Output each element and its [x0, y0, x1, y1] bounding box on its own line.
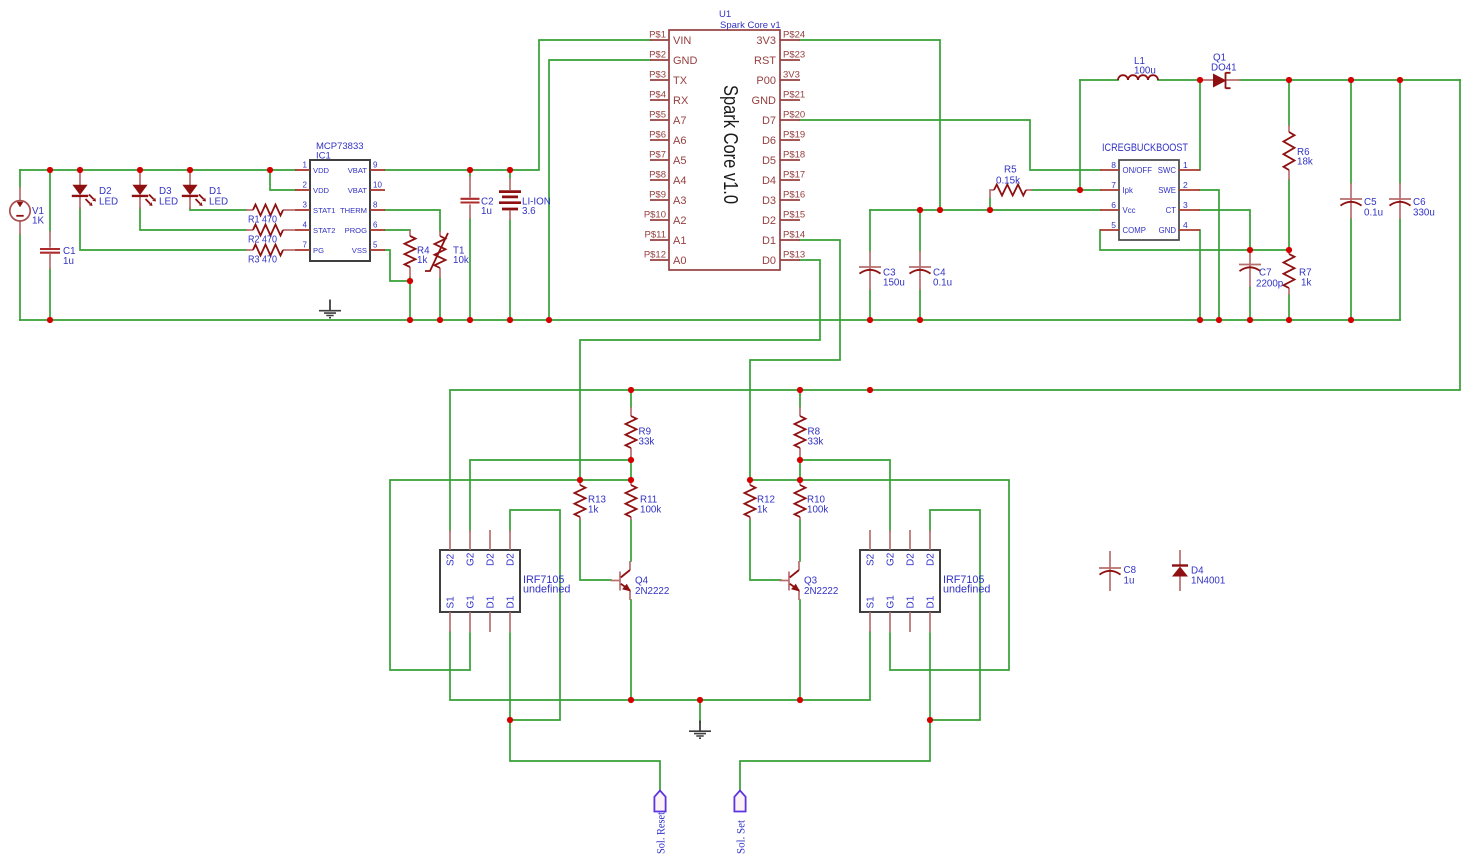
U1 pin P$16 D3	[780, 199, 800, 201]
IC1 pin 5 VSS	[370, 249, 385, 251]
junction C7/COMP	[1247, 247, 1253, 253]
wire R4 bottom to GND	[409, 277, 411, 320]
LED D3	[132, 170, 156, 209]
wire D2 cathode to R3	[80, 208, 246, 250]
IRF7105 left pin D1 bottom	[509, 612, 511, 632]
LED D1	[182, 170, 206, 209]
svg-text:P$9: P$9	[649, 190, 666, 201]
ICREGBUCKBOOST pin 7 Ipk	[1100, 189, 1119, 191]
wire R9-R11 link	[630, 457, 632, 481]
U1 pin 3V3 P00	[780, 79, 800, 81]
svg-text:P$7: P$7	[649, 150, 666, 161]
wire R5 left to Vcc	[989, 198, 991, 210]
junction T1/GND	[437, 317, 443, 323]
svg-text:8: 8	[373, 201, 378, 210]
U1 pin P$4 RX	[650, 99, 669, 101]
resistor R5 0.15k	[990, 185, 1032, 199]
connector flag Sol. Reset	[654, 791, 665, 812]
svg-text:G2: G2	[466, 552, 477, 566]
svg-text:S1: S1	[866, 596, 877, 609]
IRF7105 right pin G2 top	[889, 530, 891, 550]
diode Q1 DO41	[1200, 73, 1240, 89]
ICREGBUCKBOOST pin 1 SWC	[1179, 169, 1200, 171]
svg-text:C7: C7	[1259, 268, 1272, 279]
IC1 pin 4 STAT2	[295, 229, 310, 231]
IC1 pin 2 VDD	[295, 189, 310, 191]
svg-text:100k: 100k	[807, 505, 828, 516]
svg-text:33k: 33k	[808, 437, 824, 448]
svg-text:P$3: P$3	[649, 70, 666, 81]
svg-text:R2 470: R2 470	[248, 235, 278, 246]
resistor R7 1k	[1284, 250, 1295, 295]
junction VDD2/N$1	[267, 167, 273, 173]
U1 pin P$12 A0	[650, 259, 669, 261]
IC1 pin 3 STAT1	[295, 209, 310, 211]
svg-text:S2: S2	[866, 553, 877, 566]
junction R7/GND	[1286, 317, 1292, 323]
junction R11 top	[628, 477, 634, 483]
junction Q3 emitter	[797, 697, 803, 703]
wire R12 node loop to G1 right	[750, 480, 1009, 670]
IC1 pin 10 VBAT	[370, 189, 385, 191]
svg-text:undefined: undefined	[943, 584, 990, 596]
svg-text:ICREGBUCKBOOST: ICREGBUCKBOOST	[1102, 142, 1188, 154]
wire V1 bottom to GND rail	[19, 234, 21, 320]
wire SWC up	[1199, 80, 1201, 170]
svg-text:1: 1	[303, 161, 308, 170]
MOSFET pair IRF7105 right body	[860, 550, 940, 612]
resistor R9 33k	[626, 407, 637, 457]
IRF7105 left pin D2 top	[509, 530, 511, 550]
svg-text:P$8: P$8	[649, 170, 666, 181]
U1 pin P$10 A2	[650, 219, 669, 221]
junction SWE/GND	[1216, 317, 1222, 323]
junction C5/out	[1348, 77, 1354, 83]
svg-text:G1: G1	[466, 595, 477, 609]
capacitor C2	[461, 176, 480, 219]
svg-text:100k: 100k	[640, 505, 661, 516]
IRF7105 left pin D2 top	[489, 530, 491, 550]
svg-text:R1 470: R1 470	[248, 215, 278, 226]
capacitor C7 2200p	[1239, 250, 1261, 287]
wire C5 bottom	[1350, 219, 1352, 320]
capacitor C1	[40, 231, 60, 269]
junction C4/GND	[917, 317, 923, 323]
svg-text:1u: 1u	[1124, 576, 1135, 587]
svg-text:D2: D2	[506, 553, 517, 566]
svg-text:Q4: Q4	[635, 576, 649, 587]
svg-text:P$24: P$24	[783, 30, 805, 41]
wire lower GND rail S1-S1	[450, 632, 870, 700]
svg-text:R3 470: R3 470	[248, 255, 278, 266]
IRF7105 left pin D1 bottom	[489, 612, 491, 632]
svg-text:CT: CT	[1166, 206, 1177, 215]
resistor R11 100k	[626, 480, 637, 520]
svg-text:P$5: P$5	[649, 110, 666, 121]
ICREGBUCKBOOST pin 4 GND	[1179, 229, 1200, 231]
inductor L1 100u	[1118, 75, 1158, 80]
wire R8 top	[799, 390, 801, 407]
svg-text:P$1: P$1	[649, 30, 666, 41]
IRF7105 right pin D2 top	[929, 530, 931, 550]
wire THERM to T1	[385, 210, 440, 231]
svg-text:U1: U1	[719, 9, 731, 20]
wire D3 cathode to R2	[140, 208, 246, 230]
svg-text:D3: D3	[159, 186, 172, 197]
ICREGBUCKBOOST pin 2 SWE	[1179, 189, 1200, 191]
U1 pin P$14 D1	[780, 239, 800, 241]
wire N$1 top rail	[20, 169, 295, 171]
wire Q3 emitter down	[799, 600, 801, 700]
wire R9 junction to G2 left	[470, 460, 631, 531]
svg-text:C8: C8	[1124, 565, 1137, 576]
resistor R13 1k	[575, 480, 586, 520]
junction Sol Set node	[927, 717, 933, 723]
svg-text:D1: D1	[762, 235, 776, 247]
svg-text:LED: LED	[99, 197, 118, 208]
svg-text:2N2222: 2N2222	[804, 586, 838, 597]
battery LI-ION 3.6	[499, 178, 521, 220]
junction C1/N$1	[47, 167, 53, 173]
wire Vcc line	[870, 209, 1100, 211]
wire C5 top	[1350, 80, 1352, 183]
wire switch rail left	[1080, 79, 1118, 81]
wire switch rail mid	[1158, 79, 1200, 81]
svg-text:0.1u: 0.1u	[933, 278, 952, 289]
wire D1 pin down left	[509, 633, 511, 720]
svg-text:150u: 150u	[883, 278, 905, 289]
IRF7105 left pin S2 top	[449, 530, 451, 550]
svg-text:P$12: P$12	[644, 250, 666, 261]
svg-text:1u: 1u	[63, 256, 74, 267]
wire U1 3V3 to Vcc	[800, 40, 940, 210]
svg-text:PG: PG	[313, 246, 324, 255]
svg-text:P$2: P$2	[649, 50, 666, 61]
junction C5/GND	[1348, 317, 1354, 323]
ICREGBUCKBOOST pin 6 Vcc	[1100, 209, 1119, 211]
junction GND4/GND	[1197, 317, 1203, 323]
capacitor C6 330u	[1389, 183, 1411, 219]
junction C1/GND	[47, 317, 53, 323]
wire U1 D7 to ON/OFF	[800, 120, 1100, 170]
MOSFET pair IRF7105 left body	[440, 550, 520, 612]
junction C2/GND	[467, 317, 473, 323]
svg-text:9: 9	[373, 161, 378, 170]
svg-text:D2: D2	[762, 215, 776, 227]
capacitor C3 150u	[859, 251, 881, 290]
svg-text:3V3: 3V3	[756, 35, 776, 47]
wire Ipk to switch node	[1079, 80, 1081, 190]
capacitor C5 0.1u	[1340, 183, 1362, 219]
svg-text:GND: GND	[673, 55, 698, 67]
U1 pin P$11 A1	[650, 239, 669, 241]
svg-text:THERM: THERM	[340, 206, 367, 215]
resistor R2 470	[246, 225, 295, 236]
wire D1 cathode to R1	[190, 208, 246, 210]
junction R8-R10	[797, 457, 803, 463]
wire R6 top	[1288, 80, 1290, 125]
svg-text:S1: S1	[446, 596, 457, 609]
wire U1 GND to rail	[549, 60, 650, 320]
svg-text:D4: D4	[762, 175, 776, 187]
U1 pin P$20 D7	[780, 119, 800, 121]
wire PROG to R4	[385, 229, 410, 231]
svg-text:6: 6	[1111, 200, 1116, 210]
svg-text:3.6: 3.6	[522, 206, 536, 217]
svg-text:D6: D6	[762, 135, 776, 147]
junction R13 top	[577, 477, 583, 483]
wire R5 right to Ipk	[1032, 189, 1100, 191]
junction 3V3/Vcc	[937, 207, 943, 213]
svg-text:Vcc: Vcc	[1123, 206, 1136, 215]
svg-text:330u: 330u	[1413, 208, 1435, 219]
svg-text:D1: D1	[506, 595, 517, 608]
svg-text:P$20: P$20	[783, 110, 805, 121]
svg-text:1k: 1k	[588, 505, 598, 516]
capacitor C8 1u	[1099, 551, 1121, 591]
svg-text:P$4: P$4	[649, 90, 666, 101]
diode D4 1N4001	[1172, 550, 1188, 591]
junction LI-ION/GND	[507, 317, 513, 323]
svg-text:D1: D1	[906, 595, 917, 608]
svg-text:A3: A3	[673, 195, 686, 207]
svg-text:STAT1: STAT1	[313, 206, 336, 215]
U1 pin P$2 GND	[650, 59, 669, 61]
svg-text:LED: LED	[209, 197, 228, 208]
resistor R8 33k	[795, 407, 806, 457]
wire C1 top	[49, 170, 51, 231]
U1 pin P$3 TX	[650, 79, 669, 81]
svg-text:G1: G1	[886, 595, 897, 609]
ground symbol near IC1	[319, 300, 341, 318]
svg-text:A7: A7	[673, 115, 686, 127]
thermistor T1 10k	[425, 231, 448, 278]
svg-text:P$16: P$16	[783, 190, 805, 201]
IRF7105 right pin D2 top	[909, 530, 911, 550]
svg-text:STAT2: STAT2	[313, 226, 336, 235]
junction D2/N$1	[77, 167, 83, 173]
svg-text:R5: R5	[1004, 165, 1017, 176]
U1 pin P$18 D5	[780, 159, 800, 161]
svg-text:D5: D5	[762, 155, 776, 167]
svg-text:A6: A6	[673, 135, 686, 147]
svg-text:1K: 1K	[32, 216, 44, 227]
svg-text:8: 8	[1111, 160, 1116, 170]
svg-text:33k: 33k	[639, 437, 655, 448]
svg-text:VBAT: VBAT	[348, 166, 368, 175]
wire T1 bottom to GND	[439, 278, 441, 320]
wire SWE down	[1200, 190, 1219, 320]
junction D3/N$1	[137, 167, 143, 173]
U1 pin P$23 RST	[780, 59, 800, 61]
svg-text:GND: GND	[1159, 226, 1177, 235]
svg-text:7: 7	[1111, 180, 1116, 190]
wire D2 pin loop left	[510, 510, 560, 720]
wire C7 bottom	[1249, 287, 1251, 320]
svg-text:P$14: P$14	[783, 230, 805, 241]
resistor R12 1k	[745, 480, 756, 520]
ICREGBUCKBOOST pin 8 ON/OFF	[1100, 169, 1119, 171]
ground symbol lower center	[689, 721, 711, 739]
junction ground stem	[697, 697, 703, 703]
wire LI-ION bottom	[509, 220, 511, 320]
svg-text:2: 2	[303, 181, 308, 190]
svg-text:3: 3	[303, 201, 308, 210]
svg-text:IC1: IC1	[316, 151, 331, 162]
junction R6/out	[1286, 77, 1292, 83]
LED D2	[72, 170, 96, 209]
junction R9/out2	[628, 387, 634, 393]
module U1 Spark Core v1.0 body	[669, 30, 780, 270]
voltage source V1	[10, 187, 30, 235]
svg-text:S2: S2	[446, 553, 457, 566]
wire C1 bottom	[49, 269, 51, 320]
svg-text:10: 10	[373, 181, 382, 190]
svg-text:Spark Core v1: Spark Core v1	[720, 20, 781, 31]
svg-text:D1: D1	[209, 186, 222, 197]
junction SWC/switch	[1197, 77, 1203, 83]
svg-text:5: 5	[373, 241, 378, 250]
junction R10 top	[797, 477, 803, 483]
svg-text:Sol. Set: Sol. Set	[736, 819, 748, 854]
junction S2right/out2	[867, 387, 873, 393]
svg-text:undefined: undefined	[523, 584, 570, 596]
U1 pin P$19 D6	[780, 139, 800, 141]
wire VBAT rail to U1 VIN	[385, 40, 650, 170]
IRF7105 right pin D1 bottom	[929, 612, 931, 632]
IC1 pin 1 VDD	[295, 169, 310, 171]
svg-text:Spark Core v1.0: Spark Core v1.0	[719, 85, 741, 204]
junction Q4 emitter	[628, 697, 634, 703]
svg-text:VSS: VSS	[352, 246, 367, 255]
wire Sol Reset net	[510, 720, 660, 791]
svg-text:4: 4	[303, 221, 308, 230]
IRF7105 right pin S1 bottom	[869, 612, 871, 632]
wire D1 pin down right	[929, 633, 931, 720]
svg-text:D1: D1	[486, 595, 497, 608]
junction Sol Reset node	[507, 717, 513, 723]
junction R4-VSS	[407, 278, 413, 284]
svg-text:D7: D7	[762, 115, 776, 127]
transistor Q3 2N2222	[780, 561, 801, 600]
IC1 pin 7 PG	[295, 249, 310, 251]
junction R6-R7	[1286, 247, 1292, 253]
wire VSS to R4 bottom	[385, 250, 410, 281]
connector flag Sol. Set	[734, 791, 745, 812]
U1 pin P$21 GND	[780, 99, 800, 101]
junction R8/out2	[797, 387, 803, 393]
svg-text:18k: 18k	[1297, 157, 1313, 168]
junction LI-ION/VBAT	[507, 167, 513, 173]
junction C6/out	[1397, 77, 1403, 83]
U1 pin P$1 VIN	[650, 39, 669, 41]
wire C4 top	[919, 210, 921, 251]
ICREGBUCKBOOST pin 3 CT	[1179, 209, 1200, 211]
svg-text:D2: D2	[906, 553, 917, 566]
wire R11 bottom to Q4 collector	[630, 520, 632, 561]
svg-text:6: 6	[373, 221, 378, 230]
U1 pin P$9 A3	[650, 199, 669, 201]
resistor R10 100k	[795, 480, 806, 520]
svg-text:D2: D2	[486, 553, 497, 566]
svg-text:D3: D3	[762, 195, 776, 207]
svg-text:P$6: P$6	[649, 130, 666, 141]
svg-text:1u: 1u	[481, 206, 492, 217]
wire GND bottom rail	[20, 319, 1400, 321]
wire R8 junction to G2 right	[800, 460, 890, 531]
wire R13 node loop to G1 left	[390, 480, 631, 670]
U1 pin P$8 A4	[650, 179, 669, 181]
svg-text:A2: A2	[673, 215, 686, 227]
junction Ipk node	[1077, 187, 1083, 193]
svg-text:A4: A4	[673, 175, 686, 187]
ICREGBUCKBOOST pin 5 COMP	[1100, 229, 1119, 231]
wire R13 bottom to Q4 base	[580, 519, 611, 580]
junction R9-R11	[628, 457, 634, 463]
svg-text:7: 7	[303, 241, 308, 250]
junction R12 top	[747, 477, 753, 483]
wire Q4 emitter down	[630, 600, 632, 700]
transistor Q4 2N2222	[611, 561, 632, 600]
svg-text:RX: RX	[673, 95, 689, 107]
wire C3 bottom	[869, 290, 871, 320]
svg-text:2200p: 2200p	[1256, 279, 1284, 290]
svg-text:P$11: P$11	[645, 230, 666, 241]
svg-text:3: 3	[1183, 200, 1188, 210]
wire C4 bottom	[919, 290, 921, 320]
svg-text:Sol. Reset: Sol. Reset	[656, 811, 668, 854]
IC1 pin 8 THERM	[370, 209, 385, 211]
svg-text:VIN: VIN	[673, 35, 691, 47]
U1 pin P$24 3V3	[780, 39, 800, 41]
junction C2/VBAT	[467, 167, 473, 173]
junction C4/Vcc	[917, 207, 923, 213]
svg-text:RST: RST	[754, 55, 776, 67]
svg-text:0.1u: 0.1u	[1364, 208, 1383, 219]
svg-text:2N2222: 2N2222	[635, 586, 669, 597]
svg-text:C6: C6	[1413, 197, 1426, 208]
svg-text:D0: D0	[762, 255, 776, 267]
IC regulator ICREGBUCKBOOST body	[1119, 160, 1179, 240]
wire output to lower rail and S2	[450, 80, 1460, 531]
resistor R4 1k	[405, 230, 416, 277]
IC IC1 MCP73833 body	[310, 160, 370, 261]
U1 pin P$15 D2	[780, 219, 800, 221]
wire C6 top	[1399, 80, 1401, 183]
wire GND4 down	[1199, 230, 1201, 320]
svg-text:P$19: P$19	[783, 130, 805, 141]
svg-text:D2: D2	[99, 186, 112, 197]
junction C3/GND	[867, 317, 873, 323]
junction C7/GND	[1247, 317, 1253, 323]
U1 pin P$5 A7	[650, 119, 669, 121]
wire output rail	[1240, 79, 1460, 81]
svg-text:DO41: DO41	[1211, 63, 1237, 74]
IC1 pin 6 PROG	[370, 229, 385, 231]
svg-text:0.15k: 0.15k	[996, 176, 1020, 187]
wire R12 bottom to Q3 base	[750, 519, 781, 580]
svg-text:5: 5	[1111, 220, 1116, 230]
resistor R3 470	[246, 245, 295, 256]
svg-text:A5: A5	[673, 155, 686, 167]
svg-text:P$17: P$17	[783, 170, 805, 181]
svg-text:Ipk: Ipk	[1123, 186, 1134, 195]
svg-text:VDD: VDD	[313, 186, 330, 195]
resistor R6 18k	[1284, 125, 1295, 180]
svg-text:2: 2	[1183, 180, 1188, 190]
svg-text:4: 4	[1183, 220, 1188, 230]
svg-text:D2: D2	[926, 553, 937, 566]
